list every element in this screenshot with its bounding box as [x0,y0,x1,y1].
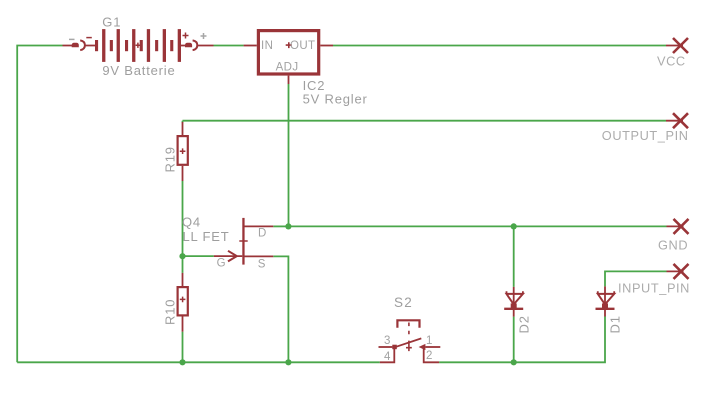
junction node drain/ADJ/GND [285,223,291,229]
svg-text:9V Batterie: 9V Batterie [102,63,175,78]
wire left vertical net [17,46,62,363]
pin OUT stub [320,45,333,47]
resistor R10 [178,273,188,332]
D1 triangle [598,294,614,305]
pin OUTPUT_PIN [666,113,688,128]
svg-text:D2: D2 [516,315,531,333]
svg-text:Q4: Q4 [182,214,201,229]
wire battery to IC2 [214,45,244,47]
svg-text:R10: R10 [162,299,177,325]
junction node R10/bottom bus [179,359,185,365]
junction node D2/bottom bus [511,359,517,365]
S2 left contact square [392,345,397,350]
Q4 gate bar [242,218,244,265]
D2 cathode nubs [507,291,523,294]
R19 top pin [182,122,184,135]
diode D2 [504,287,523,317]
battery G1 [63,29,214,62]
battery left clip contact [72,43,79,48]
D2 top pin [513,287,515,317]
D2 triangle [507,294,523,305]
diode D1 [596,286,615,316]
S2 right contact arrow [419,344,426,350]
pin ADJ stub [288,76,290,84]
pin INPUT_PIN [667,264,689,279]
S2 moving contact blade [395,338,422,347]
battery left clip arc [80,40,85,50]
svg-text:ADJ: ADJ [276,62,299,74]
battery plus gray [201,33,207,39]
R19 body [178,136,188,165]
svg-text:G1: G1 [102,15,121,30]
D1 cathode nubs [598,291,614,294]
D1 apex blob [602,303,608,308]
wire source down to bottom bus [273,256,288,362]
svg-text:1: 1 [426,335,433,347]
svg-text:3: 3 [384,335,391,347]
wire node to R10 top [182,256,184,273]
svg-text:OUTPUT_PIN: OUTPUT_PIN [602,128,689,143]
svg-text:GND: GND [658,238,688,253]
wire bottom bus left [17,361,380,363]
battery minus gray [69,38,75,40]
battery plus red [183,33,189,39]
junction node GND/D2 [511,223,517,229]
junction node R19/R10/gate [179,253,185,259]
S2 stem cross [406,341,412,352]
pin IN stub [244,45,257,47]
svg-text:R19: R19 [162,146,177,172]
IC2 plus mark at OUT [286,42,292,48]
svg-text:5V Regler: 5V Regler [303,92,368,107]
wire battery left lead [63,45,96,47]
wire D2 bottom [513,317,515,363]
switch S2 [379,320,441,362]
S2 pin 2 lead [424,347,439,362]
svg-text:2: 2 [426,350,433,362]
Q4 source pin [245,255,274,257]
junction node source/bottom bus [285,359,291,365]
D1 cathode bar [596,308,615,310]
svg-text:INPUT_PIN: INPUT_PIN [618,280,690,295]
battery minus red [86,37,92,39]
S2 pin 4 lead [380,349,395,363]
Q4 gate arrow [228,251,237,262]
svg-text:D1: D1 [608,315,623,333]
transistor Q4 MOSFET [214,218,273,265]
svg-text:VCC: VCC [657,54,686,69]
R10 plus mark [180,297,186,303]
S2 pin 3 stub [379,346,393,348]
battery right clip arc [193,40,198,50]
pin VCC [666,38,688,53]
wire GND horizontal [288,225,666,227]
Q4 gate pin [214,255,243,257]
svg-text:D: D [258,228,267,240]
wire drain to node [273,225,288,227]
D2 apex blob [511,303,517,308]
Q4 drain pin [245,225,274,227]
R10 body [178,287,188,315]
wire R10 bottom to bottom bus [182,332,184,363]
wire ADJ vertical [288,84,290,226]
svg-text:G: G [217,258,226,270]
S2 pin 1 stub [425,346,440,348]
battery middle plus mark [136,43,141,48]
wire OUTPUT_PIN horizontal from R19 [183,121,667,123]
wire gate net [183,255,214,257]
R19 bottom pin [182,166,184,181]
wire bottom bus right [439,317,605,363]
D1 top pin [604,286,606,316]
R10 bottom pin [182,317,184,332]
Q4 bulk tick [239,240,247,242]
svg-text:IN: IN [261,40,273,52]
svg-text:S: S [258,258,266,270]
svg-text:4: 4 [384,351,391,363]
wire D2 top [513,226,515,287]
battery right clip contact [185,43,192,48]
D2 cathode bar [504,308,523,310]
pin GND [667,219,689,234]
R10 top pin [182,273,184,286]
resistor R19 [178,122,188,181]
S2 actuator dashed stem [408,323,410,339]
voltage regulator IC2 [244,31,333,84]
battery cell plates [95,29,181,62]
svg-text:S2: S2 [394,295,413,310]
wire R19 bottom to node [182,181,184,256]
wire D1 top to INPUT_PIN [605,271,667,286]
wire battery right lead [181,45,214,47]
IC2 box [258,31,318,74]
wire IC2 OUT to VCC [333,45,666,47]
svg-text:LL FET: LL FET [183,229,230,244]
R19 plus mark [180,148,186,154]
svg-text:OUT: OUT [290,40,315,52]
S2 actuator bracket [397,320,419,328]
